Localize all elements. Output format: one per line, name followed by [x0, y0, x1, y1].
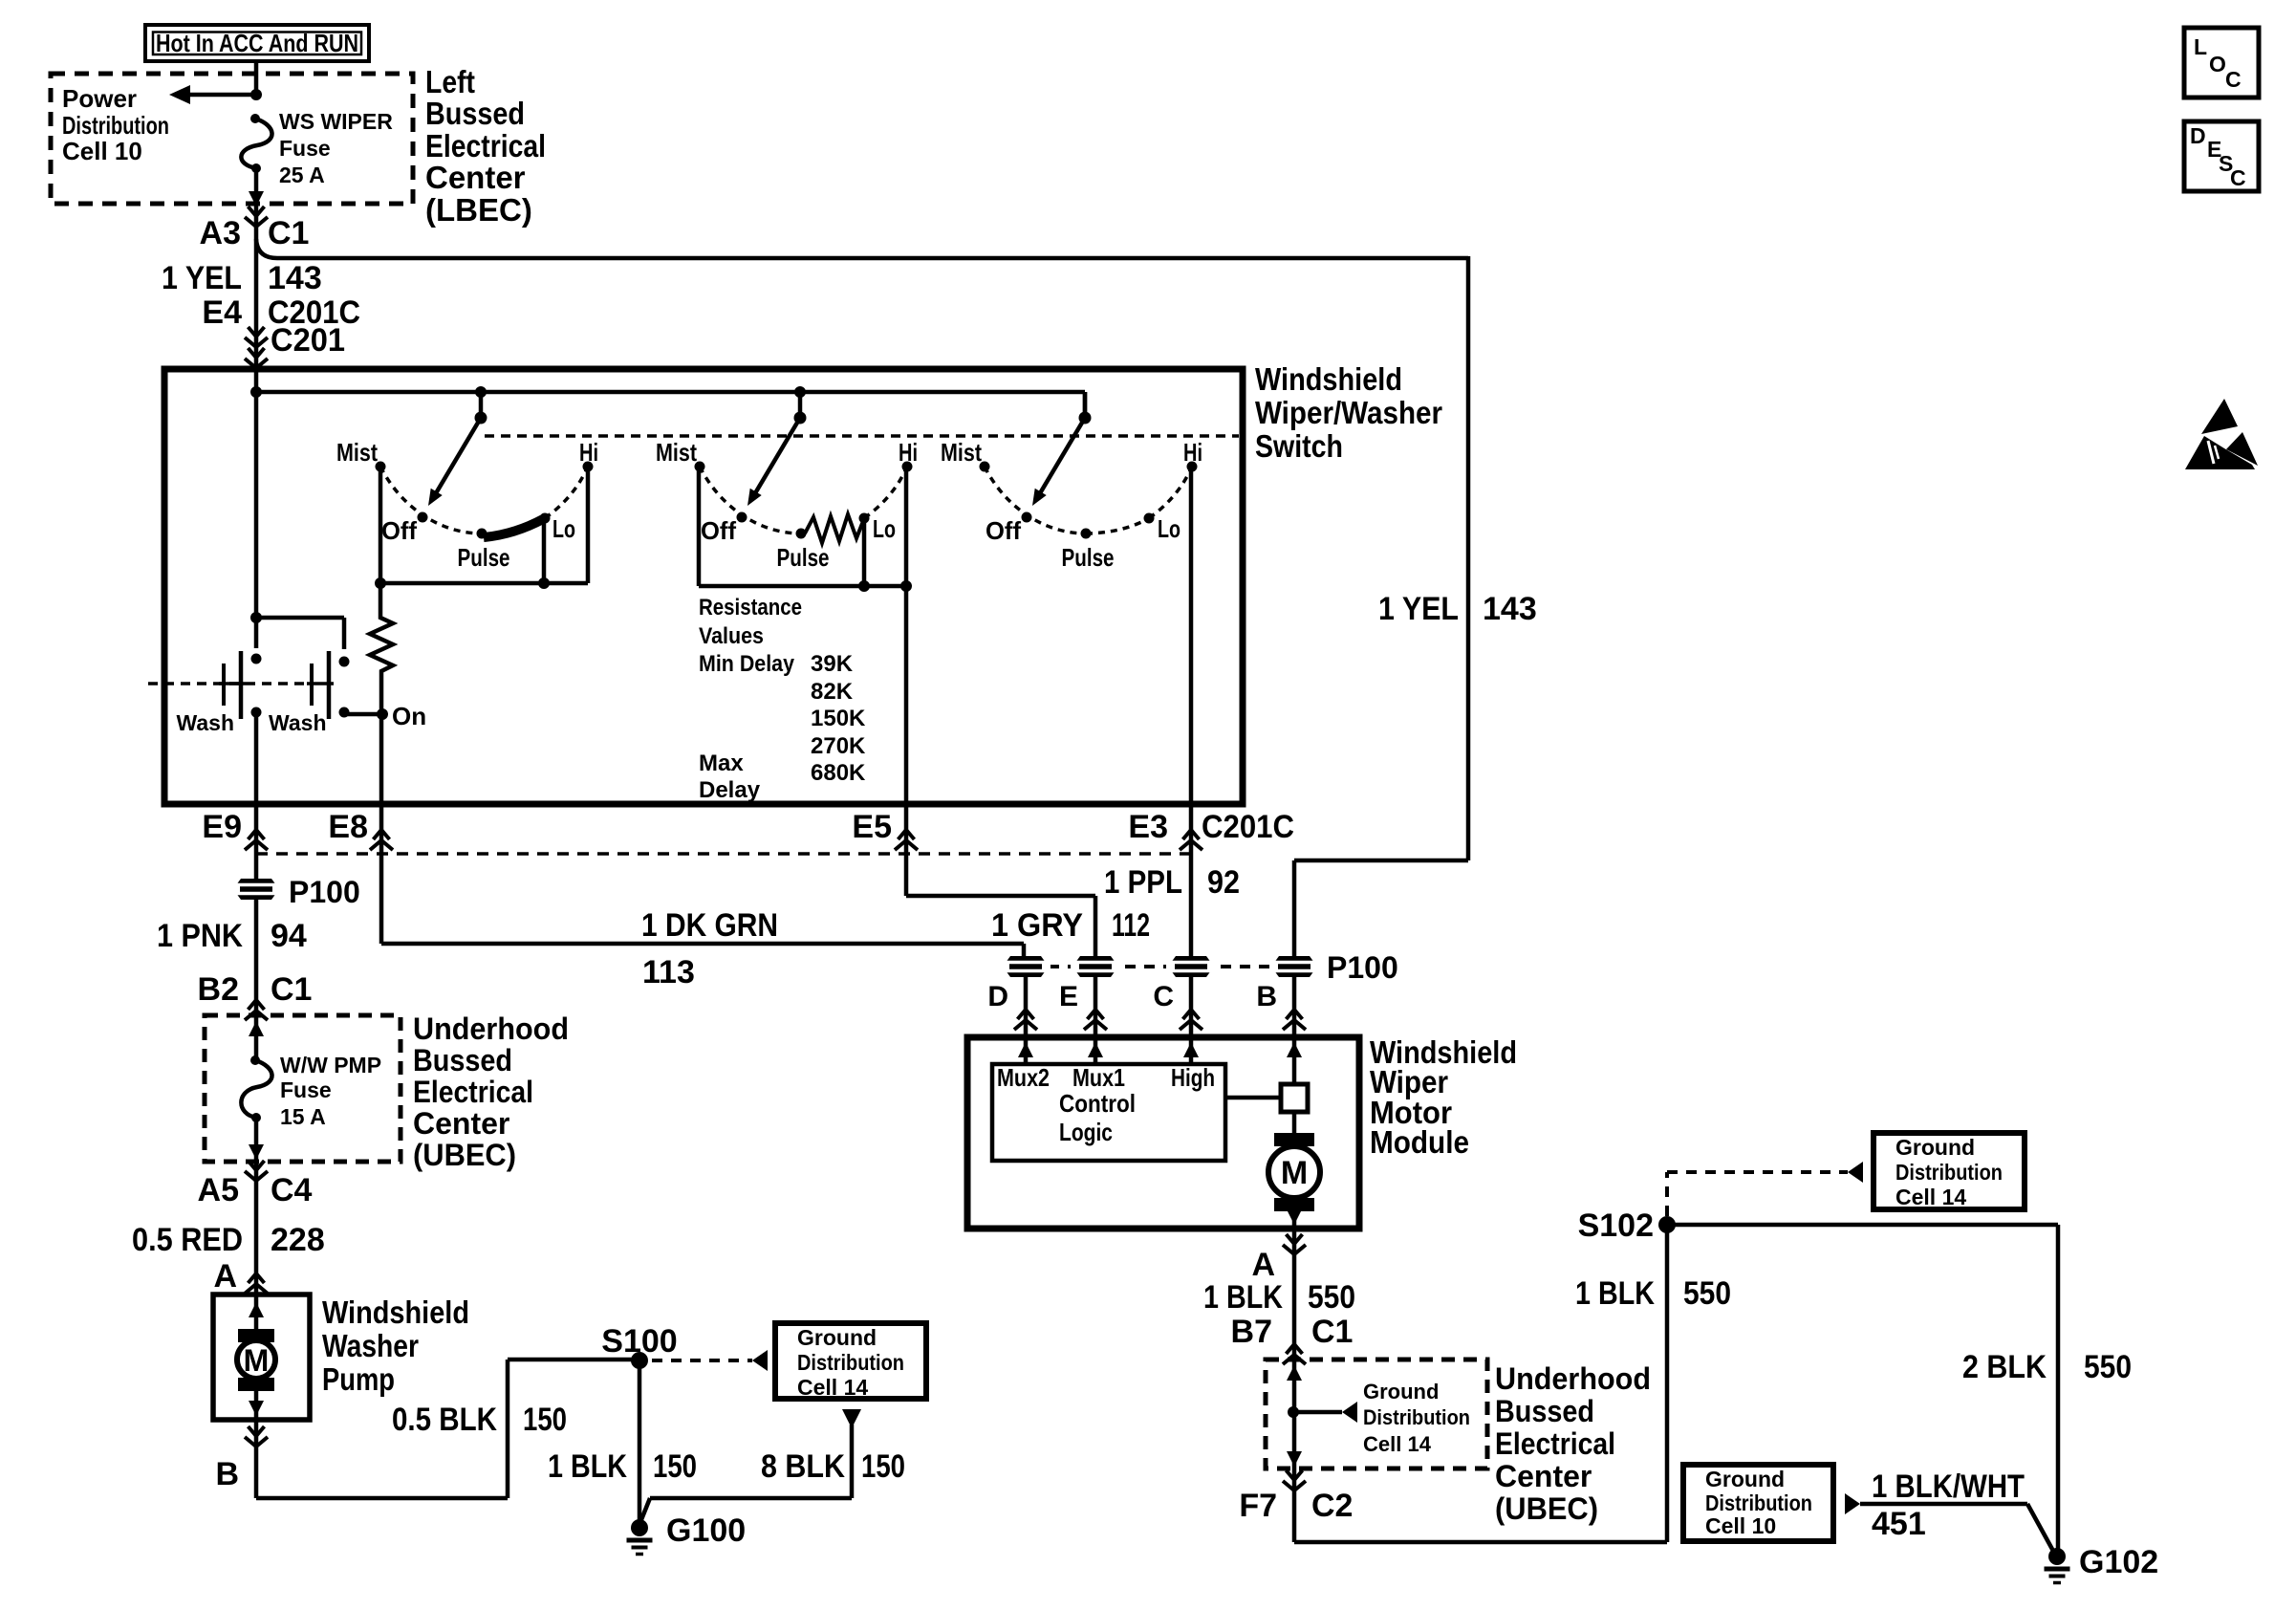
- brush/park switch contact (square): [1225, 1084, 1308, 1112]
- svg-text:E4: E4: [202, 294, 242, 331]
- svg-text:0.5 RED: 0.5 RED: [132, 1222, 243, 1258]
- svg-text:Ground: Ground: [797, 1325, 877, 1350]
- wire wafer1 Mist riser and bus: [375, 467, 588, 589]
- windshield wiper/washer switch box: [164, 369, 1243, 804]
- svg-text:C2: C2: [1311, 1488, 1353, 1524]
- svg-text:WS WIPER: WS WIPER: [279, 109, 393, 134]
- svg-text:Underhood: Underhood: [1495, 1361, 1651, 1396]
- svg-text:1 BLK/WHT: 1 BLK/WHT: [1872, 1469, 2025, 1505]
- svg-text:15 A: 15 A: [280, 1104, 326, 1129]
- svg-text:C: C: [1153, 981, 1174, 1012]
- svg-text:S102: S102: [1578, 1207, 1654, 1244]
- svg-text:A5: A5: [198, 1172, 239, 1208]
- svg-text:8 BLK: 8 BLK: [761, 1448, 845, 1485]
- washer pump name label: [322, 1295, 469, 1397]
- connector P100 grommet row: [1001, 950, 1398, 985]
- wire S102 to G102 (2 BLK 550): [1667, 1225, 2132, 1551]
- svg-text:Windshield: Windshield: [1255, 361, 1402, 397]
- connector B7 C1: [1231, 1314, 1354, 1364]
- svg-text:E8: E8: [328, 809, 368, 845]
- svg-text:Mist: Mist: [941, 438, 982, 467]
- svg-text:143: 143: [1483, 591, 1537, 627]
- svg-text:Distribution: Distribution: [1895, 1160, 2003, 1185]
- svg-text:(LBEC): (LBEC): [425, 192, 532, 228]
- svg-text:2 BLK: 2 BLK: [1962, 1349, 2047, 1385]
- resistance values table: [699, 595, 866, 803]
- switch wafer 2 dashed travel arc: [700, 467, 907, 533]
- ground G102: [2045, 1544, 2159, 1583]
- svg-text:Mux2: Mux2: [997, 1063, 1050, 1092]
- ground G100: [627, 1512, 747, 1555]
- svg-text:D: D: [2190, 123, 2206, 148]
- svg-text:Cell 14: Cell 14: [797, 1375, 868, 1400]
- wire wafer3 Hi to E3: [1189, 467, 1194, 804]
- connector B2 C1: [198, 971, 313, 1020]
- svg-text:Off: Off: [986, 516, 1021, 545]
- svg-text:Off: Off: [701, 516, 736, 545]
- svg-text:High: High: [1171, 1063, 1215, 1092]
- svg-text:M: M: [1281, 1155, 1308, 1191]
- svg-text:1 BLK: 1 BLK: [1203, 1279, 1283, 1316]
- wash switch mechanical dashed link: [148, 682, 306, 685]
- LBEC dashed box (Left Bussed Electrical Center): [51, 74, 413, 204]
- wire wafer2 Mist riser and bus: [699, 467, 912, 592]
- wire LBEC to switch box: [254, 207, 259, 369]
- resistor wafer2 pulse (variable): [805, 514, 863, 543]
- svg-text:Lo: Lo: [873, 514, 896, 543]
- wire cell10 to G102 (1 BLK/WHT 451): [1845, 1469, 2054, 1553]
- wire from power box to LBEC: [254, 61, 259, 95]
- switch wafer 2 Lo label: [873, 514, 896, 543]
- connector F7 C2: [1239, 1470, 1353, 1524]
- connector E8: [328, 809, 393, 850]
- connector E9: [202, 809, 268, 850]
- svg-text:Min Delay: Min Delay: [699, 651, 795, 677]
- wiper motor M2: [1268, 1133, 1320, 1227]
- wash switch feed branch: [250, 612, 344, 649]
- svg-text:G100: G100: [666, 1512, 746, 1549]
- svg-text:E3: E3: [1128, 809, 1168, 845]
- fuse W/W PMP 15 A: [241, 1053, 381, 1129]
- svg-text:Wash: Wash: [269, 710, 327, 735]
- wire wash left to E9: [254, 712, 259, 804]
- svg-text:150: 150: [861, 1448, 905, 1485]
- svg-text:Hi: Hi: [899, 438, 918, 467]
- svg-text:(UBEC): (UBEC): [1495, 1491, 1598, 1526]
- svg-text:Bussed: Bussed: [425, 96, 525, 131]
- wire wafer2 Hi to E5: [904, 467, 909, 804]
- wire power distribution arrow: [169, 85, 256, 104]
- connector C201 dashed line: [256, 852, 1191, 856]
- svg-text:228: 228: [271, 1222, 325, 1258]
- svg-text:Cell 14: Cell 14: [1895, 1185, 1966, 1209]
- svg-text:Fuse: Fuse: [280, 1077, 332, 1102]
- switch wafer 3 contacts Mist Off Pulse Lo Hi: [941, 438, 1202, 572]
- svg-text:550: 550: [2084, 1349, 2132, 1385]
- fuse WS WIPER 25 A: [241, 109, 393, 187]
- svg-text:143: 143: [268, 260, 322, 296]
- svg-text:Bussed: Bussed: [1495, 1394, 1594, 1428]
- svg-text:1 PNK: 1 PNK: [157, 918, 243, 954]
- svg-text:1 GRY: 1 GRY: [991, 907, 1083, 944]
- svg-text:C: C: [2230, 165, 2246, 190]
- svg-text:G102: G102: [2079, 1544, 2158, 1580]
- svg-text:Hot In ACC And RUN: Hot In ACC And RUN: [156, 29, 358, 57]
- svg-text:Pulse: Pulse: [777, 543, 830, 572]
- svg-text:Pulse: Pulse: [458, 543, 510, 572]
- svg-text:Washer: Washer: [322, 1328, 419, 1363]
- svg-text:Cell 14: Cell 14: [1363, 1432, 1432, 1456]
- svg-text:Resistance: Resistance: [699, 595, 802, 620]
- svg-text:P100: P100: [289, 875, 360, 909]
- svg-text:Pulse: Pulse: [1062, 543, 1115, 572]
- wire label 1 BLK 550 (S102 leg): [1575, 1275, 1731, 1312]
- svg-text:Wiper/Washer: Wiper/Washer: [1255, 395, 1442, 430]
- svg-text:C: C: [2225, 67, 2242, 92]
- svg-text:Distribution: Distribution: [797, 1350, 904, 1375]
- wire S100 ground distribution reference (dashed): [652, 1350, 768, 1371]
- windshield washer pump box: [213, 1295, 310, 1420]
- UBEC dashed box (washer pump fuse): [205, 1015, 401, 1162]
- svg-text:Ground: Ground: [1895, 1135, 1975, 1160]
- switch wafer 3 wiper arm: [1032, 392, 1092, 506]
- svg-text:W/W PMP: W/W PMP: [280, 1053, 381, 1077]
- wire pin E to Mux1: [1088, 1037, 1103, 1064]
- svg-text:Values: Values: [699, 623, 764, 649]
- svg-text:D: D: [987, 981, 1008, 1012]
- connector A3 C1: [200, 207, 310, 251]
- svg-text:Power: Power: [62, 84, 137, 113]
- svg-text:E: E: [1059, 981, 1078, 1012]
- connector E4 C201C: [202, 294, 360, 347]
- wire F7 to S102: [1294, 1225, 1667, 1542]
- connector pin A motor module: [1251, 1234, 1306, 1283]
- svg-text:C201: C201: [271, 322, 345, 359]
- svg-text:Module: Module: [1370, 1124, 1469, 1160]
- UBEC (ground) name label: [1495, 1361, 1651, 1526]
- svg-text:150: 150: [653, 1448, 697, 1485]
- svg-text:150K: 150K: [811, 706, 866, 731]
- svg-text:C201C: C201C: [1202, 809, 1294, 845]
- svg-text:1 YEL: 1 YEL: [1378, 591, 1459, 627]
- connector pin B washer pump: [215, 1426, 268, 1492]
- svg-text:Center: Center: [425, 160, 526, 195]
- svg-text:B: B: [1256, 981, 1277, 1012]
- wire C1 to right feed 1 YEL 143: [256, 239, 1537, 958]
- node S102 splice: [1578, 1207, 1676, 1244]
- connector E5: [852, 809, 918, 850]
- ground distribution cell 10 box: [1683, 1465, 1833, 1541]
- wire label 1 BLK 550 (module ground lead): [1203, 1229, 1355, 1360]
- node On: [377, 702, 426, 730]
- switch wafer 1 wiper arm: [428, 392, 487, 506]
- svg-text:Hi: Hi: [1183, 438, 1202, 467]
- UBEC dashed box (ground bus): [1266, 1360, 1487, 1469]
- wire square to motor: [1292, 1112, 1297, 1133]
- node S100 splice: [601, 1323, 677, 1369]
- switch wafer 3 Lo label: [1158, 514, 1180, 543]
- svg-text:25 A: 25 A: [279, 163, 325, 187]
- svg-text:680K: 680K: [811, 760, 866, 786]
- motor module name label: [1370, 1034, 1517, 1160]
- svg-text:1 PPL: 1 PPL: [1104, 864, 1182, 901]
- wash switch contact right: [269, 651, 350, 735]
- svg-text:A3: A3: [200, 215, 241, 251]
- svg-text:92: 92: [1207, 864, 1240, 901]
- ground distribution cell 14 box (right): [1874, 1133, 2025, 1209]
- node bus junctions: [250, 386, 806, 398]
- svg-text:Ground: Ground: [1705, 1467, 1785, 1491]
- switch wafer 1 dashed travel arc: [380, 467, 588, 533]
- svg-text:Center: Center: [1495, 1459, 1592, 1493]
- svg-text:82K: 82K: [811, 679, 854, 705]
- switch wafer 1 contacts Mist Off Pulse Lo Hi: [336, 438, 598, 572]
- UBEC name label: [413, 1012, 569, 1172]
- control logic box U1: [992, 1063, 1225, 1161]
- svg-text:On: On: [392, 702, 426, 730]
- wire label 0.5 RED 228: [132, 1162, 325, 1295]
- svg-text:Cell 10: Cell 10: [62, 137, 142, 165]
- svg-text:C4: C4: [271, 1172, 313, 1208]
- ground distribution cell 14 box (left): [775, 1323, 926, 1400]
- wire through UBEC ground bus: [1287, 1360, 1302, 1469]
- wire label 1 PNK 94: [157, 900, 307, 1015]
- power label box "Hot In ACC And RUN": [145, 25, 369, 61]
- connector E3 C201C: [1128, 809, 1294, 850]
- wire E8 to pin D (1 DK GRN 113): [381, 804, 1024, 990]
- svg-text:Off: Off: [381, 516, 417, 545]
- svg-text:C1: C1: [1311, 1314, 1353, 1350]
- svg-text:A: A: [1251, 1247, 1275, 1283]
- wire E3 to pin C (1 PPL 92): [1104, 804, 1240, 958]
- wire wash right to On node: [344, 712, 382, 717]
- wire UBEC cell14 reference: [1293, 1380, 1470, 1456]
- svg-text:Control: Control: [1059, 1089, 1136, 1118]
- wire out of UBEC: [249, 1118, 264, 1162]
- svg-text:270K: 270K: [811, 733, 866, 759]
- svg-text:Center: Center: [413, 1106, 509, 1141]
- svg-text:Fuse: Fuse: [279, 136, 331, 161]
- connector P100 grommet (washer feed): [231, 875, 360, 909]
- svg-text:150: 150: [523, 1402, 567, 1438]
- switch mechanical dashed link: [485, 434, 1239, 438]
- svg-text:Switch: Switch: [1255, 428, 1343, 464]
- ESD sensitive device symbol: [2185, 399, 2258, 469]
- svg-text:Bussed: Bussed: [413, 1043, 512, 1077]
- svg-text:Max: Max: [699, 751, 744, 776]
- wire pin C to High: [1183, 1037, 1199, 1064]
- Power Distribution Cell 10 label: [62, 84, 169, 165]
- svg-text:1 YEL: 1 YEL: [162, 260, 242, 296]
- wire into UBEC: [249, 1015, 264, 1060]
- wire pin B to brush switch: [1287, 1037, 1302, 1084]
- svg-text:Distribution: Distribution: [62, 111, 169, 140]
- svg-text:Wash: Wash: [177, 710, 235, 735]
- svg-text:Ground: Ground: [1363, 1380, 1439, 1403]
- wire label 1 YEL 143: [162, 260, 322, 296]
- svg-text:P100: P100: [1327, 950, 1398, 985]
- node power feed junction: [250, 89, 262, 100]
- svg-text:112: 112: [1112, 907, 1150, 944]
- svg-text:Electrical: Electrical: [425, 128, 546, 163]
- svg-text:O: O: [2209, 52, 2226, 76]
- resistor wafer1 pulse delay: [370, 583, 393, 714]
- wire E9 to P100: [254, 804, 259, 879]
- connector pin A washer pump: [213, 1258, 268, 1295]
- switch wafer 1 contact bar (thick arc Pulse-Lo): [484, 519, 543, 537]
- DESC reference box: [2184, 121, 2259, 191]
- wire fuse to LBEC exit: [249, 168, 264, 207]
- connector A5 C4: [198, 1161, 313, 1208]
- svg-text:1 BLK: 1 BLK: [1575, 1275, 1655, 1312]
- svg-text:A: A: [213, 1258, 237, 1295]
- svg-text:1 BLK: 1 BLK: [548, 1448, 627, 1485]
- svg-text:Electrical: Electrical: [1495, 1426, 1615, 1461]
- svg-text:39K: 39K: [811, 651, 854, 677]
- wire cell14 to ground (8 BLK 150): [640, 1409, 905, 1522]
- svg-text:S100: S100: [601, 1323, 677, 1360]
- svg-text:550: 550: [1308, 1279, 1355, 1316]
- wire S100 to G100 (1 BLK 150): [548, 1360, 697, 1522]
- svg-text:B: B: [215, 1456, 239, 1492]
- svg-text:113: 113: [642, 954, 695, 990]
- wash switch contact left: [177, 651, 262, 735]
- svg-text:Mist: Mist: [336, 438, 378, 467]
- svg-text:0.5 BLK: 0.5 BLK: [392, 1402, 497, 1438]
- svg-text:1 DK GRN: 1 DK GRN: [641, 907, 778, 944]
- connector C201: [245, 322, 345, 368]
- LBEC name label: [425, 64, 546, 228]
- svg-text:Mist: Mist: [656, 438, 697, 467]
- svg-text:Mux1: Mux1: [1072, 1063, 1125, 1092]
- switch wafer 1 Lo label: [552, 514, 575, 543]
- svg-text:F7: F7: [1239, 1488, 1277, 1524]
- svg-text:Cell 10: Cell 10: [1705, 1513, 1776, 1538]
- svg-text:Lo: Lo: [552, 514, 575, 543]
- wire pump B to S100 (0.5 BLK 150): [256, 1360, 639, 1498]
- wire On to E8: [379, 714, 384, 804]
- switch name label: [1255, 361, 1442, 464]
- wire E5 to pin E (1 GRY 112): [906, 804, 1150, 958]
- svg-text:C1: C1: [268, 215, 309, 251]
- svg-text:Distribution: Distribution: [1705, 1490, 1812, 1515]
- switch wafer 2 contacts Mist Off Pulse Lo Hi: [656, 438, 918, 572]
- svg-text:Electrical: Electrical: [413, 1075, 533, 1109]
- svg-text:550: 550: [1683, 1275, 1731, 1312]
- connector pins D E C B: [987, 977, 1306, 1037]
- wire switch feed bus: [256, 369, 1085, 648]
- wire S102 ground distribution reference (dashed): [1667, 1162, 1863, 1216]
- svg-text:Lo: Lo: [1158, 514, 1180, 543]
- svg-text:B2: B2: [198, 971, 239, 1008]
- svg-text:94: 94: [271, 918, 307, 954]
- wire pin D to Mux2: [1018, 1037, 1033, 1064]
- svg-text:Left: Left: [425, 64, 475, 99]
- svg-text:Distribution: Distribution: [1363, 1405, 1470, 1429]
- svg-text:Delay: Delay: [699, 777, 761, 803]
- svg-text:Hi: Hi: [579, 438, 598, 467]
- svg-text:Underhood: Underhood: [413, 1012, 569, 1046]
- svg-text:M: M: [244, 1343, 270, 1378]
- svg-text:Windshield: Windshield: [322, 1295, 469, 1330]
- switch wafer 2 wiper arm: [747, 392, 807, 506]
- svg-text:451: 451: [1872, 1506, 1926, 1542]
- svg-text:L: L: [2194, 34, 2207, 59]
- svg-text:(UBEC): (UBEC): [413, 1138, 516, 1172]
- svg-text:E5: E5: [852, 809, 892, 845]
- svg-text:C1: C1: [271, 971, 312, 1008]
- svg-text:Pump: Pump: [322, 1361, 395, 1397]
- LOC reference box: [2184, 28, 2259, 98]
- svg-text:E9: E9: [202, 809, 242, 845]
- washer pump motor M1: [237, 1295, 275, 1418]
- switch wafer 3 dashed travel arc: [985, 467, 1192, 533]
- svg-text:B7: B7: [1231, 1314, 1272, 1350]
- svg-text:Logic: Logic: [1059, 1118, 1113, 1146]
- windshield wiper motor module box: [967, 1037, 1359, 1229]
